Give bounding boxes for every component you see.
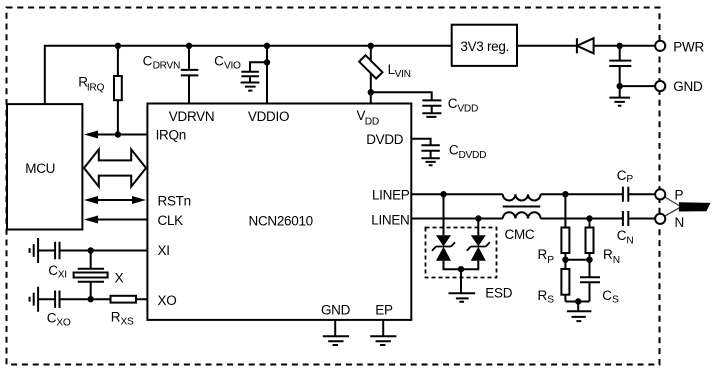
svg-text:XO: XO <box>158 293 177 308</box>
svg-text:C: C <box>143 54 153 69</box>
svg-text:CLK: CLK <box>158 213 184 228</box>
svg-text:C: C <box>602 288 612 303</box>
svg-text:DVDD: DVDD <box>459 150 487 161</box>
svg-text:C: C <box>449 142 459 157</box>
svg-text:P: P <box>626 174 633 185</box>
svg-text:N: N <box>626 236 633 247</box>
svg-text:GND: GND <box>673 79 703 94</box>
svg-text:VIN: VIN <box>395 69 411 80</box>
svg-text:XO: XO <box>56 318 70 329</box>
svg-text:S: S <box>547 294 554 305</box>
svg-text:C: C <box>48 263 58 278</box>
svg-text:LINEN: LINEN <box>371 212 409 227</box>
svg-text:MCU: MCU <box>25 161 55 176</box>
svg-text:X: X <box>115 270 124 285</box>
svg-text:ESD: ESD <box>485 285 512 300</box>
svg-text:XS: XS <box>121 317 134 328</box>
svg-text:C: C <box>47 311 57 326</box>
svg-text:IRQ: IRQ <box>87 82 105 93</box>
svg-text:VIO: VIO <box>224 61 241 72</box>
svg-text:EP: EP <box>375 303 393 318</box>
svg-text:PWR: PWR <box>673 39 704 54</box>
svg-text:XI: XI <box>58 270 67 281</box>
svg-text:R: R <box>538 247 548 262</box>
svg-text:DVDD: DVDD <box>366 132 404 147</box>
svg-text:R: R <box>111 310 121 325</box>
svg-text:C: C <box>617 228 627 243</box>
svg-text:N: N <box>613 255 620 266</box>
svg-text:CMC: CMC <box>505 227 535 242</box>
svg-text:NCN26010: NCN26010 <box>249 214 313 229</box>
svg-text:VDDIO: VDDIO <box>248 109 289 124</box>
svg-text:VDD: VDD <box>457 104 478 115</box>
svg-text:R: R <box>603 247 613 262</box>
svg-text:C: C <box>448 96 458 111</box>
svg-text:GND: GND <box>321 303 351 318</box>
svg-text:3V3 reg.: 3V3 reg. <box>460 39 509 54</box>
svg-text:LINEP: LINEP <box>372 188 410 203</box>
svg-text:VDRVN: VDRVN <box>169 109 215 124</box>
svg-text:IRQn: IRQn <box>156 127 186 142</box>
svg-text:DRVN: DRVN <box>153 61 180 72</box>
svg-text:R: R <box>538 288 548 303</box>
svg-text:C: C <box>214 54 224 69</box>
svg-text:P: P <box>675 187 684 202</box>
svg-text:P: P <box>547 255 554 266</box>
svg-text:XI: XI <box>158 243 170 258</box>
svg-text:DD: DD <box>365 116 379 127</box>
svg-text:RSTn: RSTn <box>158 194 191 209</box>
svg-text:C: C <box>617 168 627 183</box>
svg-text:S: S <box>612 294 619 305</box>
svg-text:N: N <box>675 215 684 230</box>
